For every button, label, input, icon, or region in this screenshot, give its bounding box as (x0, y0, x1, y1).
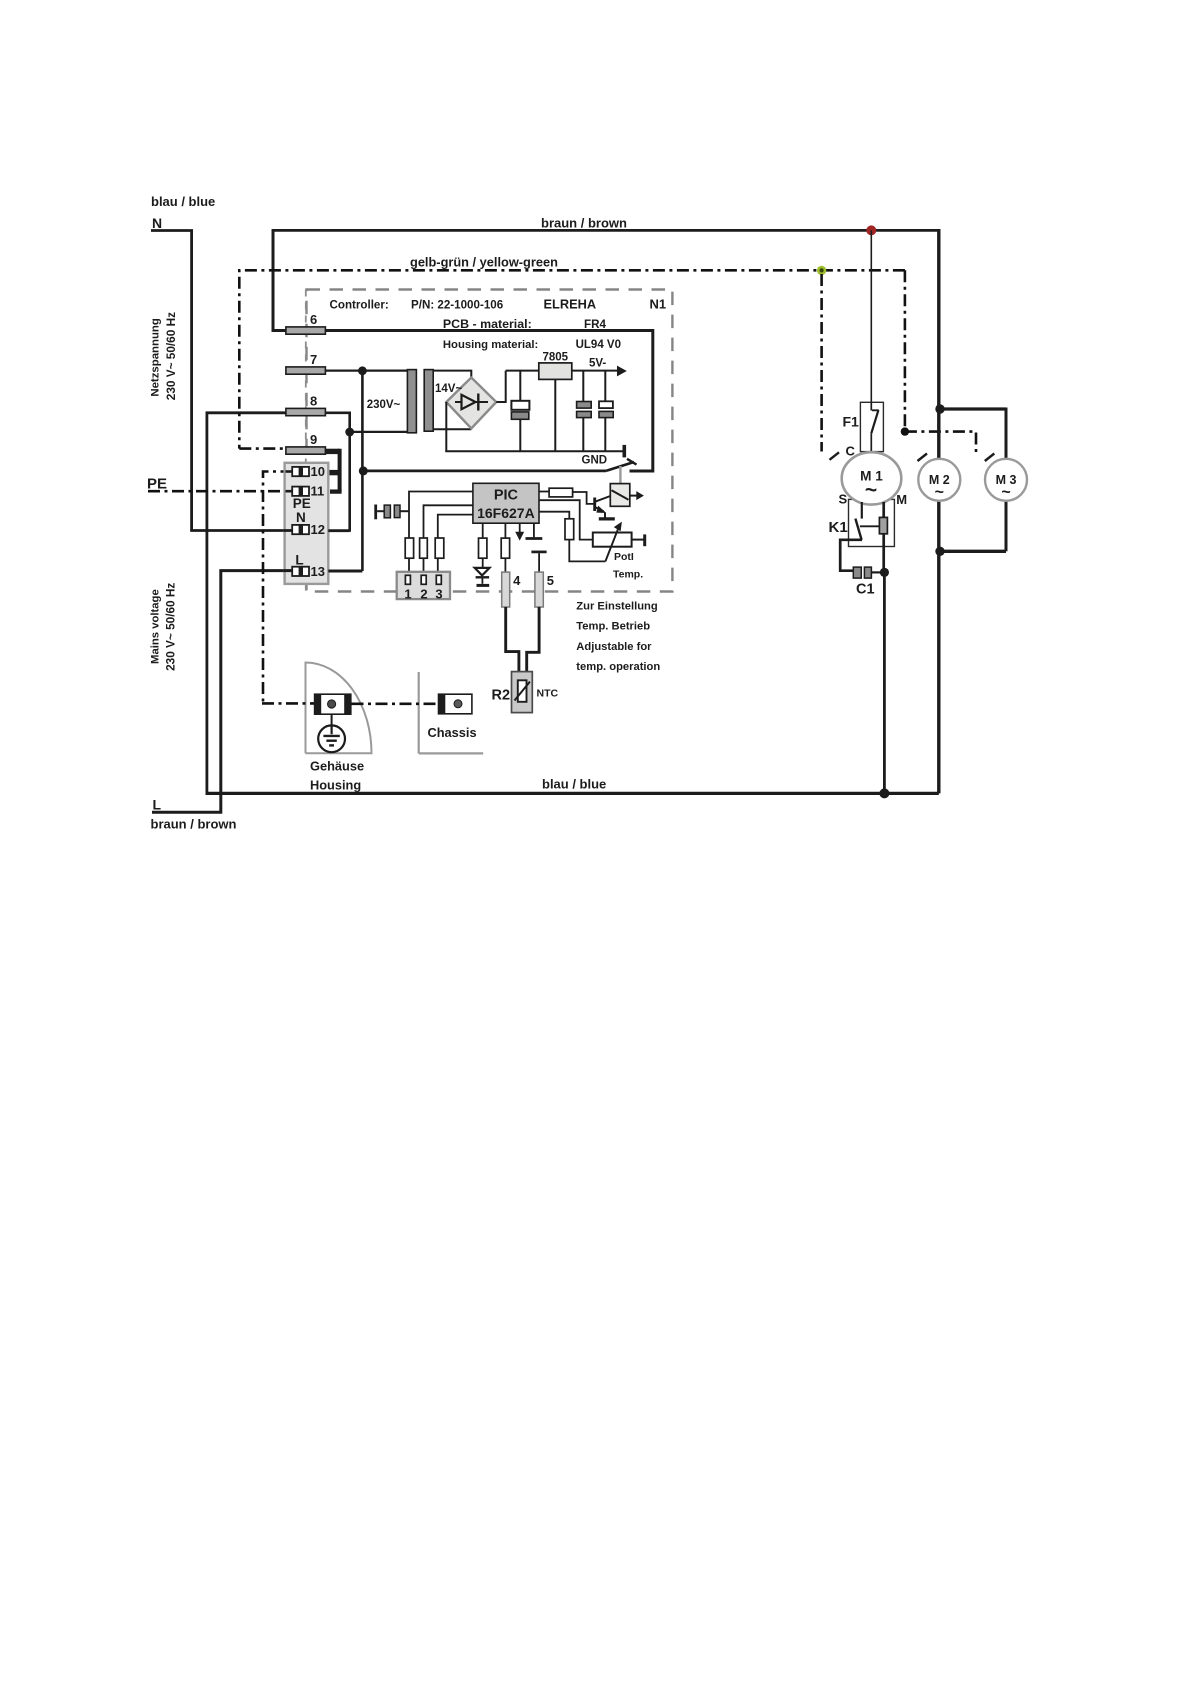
housing connector right bar (344, 694, 351, 714)
wire C1 to junction (871, 571, 880, 573)
svg-text:gelb-grün / yellow-green: gelb-grün / yellow-green (410, 255, 558, 270)
wire M1 M terminal down to C1 junction (882, 502, 885, 572)
chassis symbol lines (419, 672, 484, 753)
wire chassis dash-dot from terminal 10 down to housing (263, 472, 293, 703)
wire C5 to terminal 5 (538, 553, 540, 572)
junction dot C1 (880, 568, 889, 577)
capacitor C2 plate + (511, 401, 529, 410)
wire PE dash-dot drop to M1 (820, 274, 823, 452)
svg-text:~: ~ (935, 484, 944, 501)
wire transformer primary bottom (350, 431, 417, 433)
svg-text:braun / brown: braun / brown (151, 817, 237, 832)
centrifugal switch K1 box (849, 499, 895, 546)
motor M2 (918, 459, 960, 501)
svg-text:2: 2 (420, 586, 427, 601)
svg-text:4: 4 (513, 573, 521, 588)
F1 blade (871, 410, 878, 433)
transformer T1 primary winding bar (407, 370, 416, 433)
capacitor C4 riser (604, 371, 606, 402)
wire bridge DC- down to GND rail (445, 402, 447, 451)
wire terminal 5 to R2 (527, 607, 539, 672)
wire braun/brown top rail (272, 229, 939, 232)
svg-text:N: N (152, 215, 162, 231)
svg-text:Adjustable for: Adjustable for (576, 641, 652, 653)
junction dot link top (935, 404, 944, 413)
junction dot red (braun) (866, 225, 876, 235)
connector J1 body (397, 572, 450, 599)
poti terminal bar (643, 534, 646, 546)
housing connector left bar (315, 694, 322, 714)
svg-text:L: L (295, 552, 303, 567)
svg-text:N: N (296, 510, 306, 525)
wire PIC pin to terminal 4 (504, 523, 506, 538)
svg-text:PE: PE (293, 496, 311, 511)
wire PIC pin chain 2 (424, 505, 473, 538)
wire M1 S terminal (861, 502, 863, 519)
svg-text:~: ~ (1001, 484, 1010, 501)
R2 thermistor diagonal (515, 682, 530, 701)
svg-text:N1: N1 (650, 296, 667, 311)
resistor R3 (405, 538, 413, 558)
poti wiper arrow (605, 527, 619, 562)
svg-text:3: 3 (435, 586, 442, 601)
connector J1 slot 3 (436, 575, 441, 584)
wire motor link top (939, 407, 1006, 410)
connector J1 slot 2 (421, 575, 426, 584)
resistor R7 (wiper) (565, 519, 574, 540)
wire R7 to wiper (569, 540, 605, 562)
housing connector contact (328, 700, 336, 708)
svg-text:5V-: 5V- (589, 358, 606, 370)
wire terminal 6 to relay contact stub (325, 331, 652, 472)
svg-text:Temp. Betrieb: Temp. Betrieb (576, 621, 650, 633)
wire 5V rail (506, 370, 618, 372)
wire gelb-gruen dash-dot main run (239, 270, 905, 448)
wires resistors to connector slots (409, 558, 438, 575)
wire PE dash-dot drop right (904, 270, 907, 431)
svg-text:Controller:: Controller: (330, 298, 389, 311)
svg-text:11: 11 (311, 484, 325, 499)
svg-text:blau / blue: blau / blue (542, 777, 606, 792)
capacitor C3 plates (577, 402, 592, 409)
svg-text:14V~: 14V~ (435, 383, 462, 395)
capacitor C2 plate - (511, 412, 528, 419)
wire bridge DC+ up to 5V rail (496, 371, 505, 402)
resistor R5 (435, 538, 444, 558)
diode D2 (475, 568, 490, 576)
terminal 5 pad (535, 572, 543, 607)
resonator block 2 (394, 505, 400, 517)
wire motor link bottom (939, 550, 1006, 553)
svg-text:Gehäuse: Gehäuse (310, 758, 364, 773)
resonator lead left (377, 510, 384, 512)
transformer T1 secondary winding bar (424, 370, 433, 432)
wire gelb-gruen dash-dot into terminal 9 (239, 447, 285, 450)
svg-text:5: 5 (547, 573, 554, 588)
wire GND rail (445, 450, 622, 452)
wire N horizontal into terminal 12 (190, 529, 292, 532)
capacitor C1 plate 1 (853, 567, 861, 578)
microcontroller U1 PIC body (473, 483, 539, 523)
strap terminals 9-10-11 (325, 449, 339, 454)
svg-text:K1: K1 (829, 519, 848, 536)
transistor Q1 collector (595, 496, 611, 502)
svg-text:Zur Einstellung: Zur Einstellung (576, 600, 658, 612)
wire PIC pin to base resistor (539, 491, 549, 493)
wire PIC pin to zener chain (482, 523, 484, 538)
svg-text:230V~: 230V~ (367, 399, 401, 411)
wire terminal 8 to primary-bottom junction (325, 413, 349, 532)
svg-text:Chassis: Chassis (428, 725, 477, 740)
svg-text:PotI: PotI (614, 551, 634, 563)
wire connector to earth symbol (331, 714, 333, 725)
resonator block 1 (384, 505, 390, 518)
svg-text:PIC: PIC (494, 488, 519, 504)
svg-text:temp. operation: temp. operation (576, 661, 660, 673)
svg-text:ELREHA: ELREHA (544, 296, 597, 311)
chassis connector left bar (439, 694, 446, 714)
terminal block X1 body (285, 463, 329, 584)
chassis connector body (439, 694, 472, 714)
relay contact blade (606, 462, 634, 471)
svg-text:P/N: 22-1000-106: P/N: 22-1000-106 (411, 298, 504, 311)
svg-text:R2: R2 (492, 688, 511, 704)
resonator lead right (400, 510, 409, 512)
junction dot green (gelb-gruen) (817, 266, 826, 275)
chassis connector contact (454, 700, 462, 708)
PTC resistor (879, 517, 887, 533)
wire 7805 ground pin (554, 379, 556, 451)
terminal 11 clamp (292, 487, 309, 496)
svg-text:M: M (896, 492, 907, 507)
svg-text:Netzspannung: Netzspannung (150, 318, 162, 397)
svg-text:9: 9 (310, 432, 317, 447)
wire terminal 4 to R2 (506, 607, 519, 672)
svg-text:L: L (153, 797, 162, 813)
junction dot bottom rail (879, 788, 889, 798)
svg-text:7: 7 (310, 352, 317, 367)
terminal 7 (286, 367, 326, 374)
wire D2 to end bar (481, 578, 483, 583)
wire secondary bottom to bridge AC2 (433, 428, 471, 430)
relay coil diagonal (612, 490, 629, 500)
svg-text:Housing material:: Housing material: (443, 339, 538, 351)
wire R10 to terminal 4 (504, 558, 506, 572)
wire bottom rail blau/blue (206, 792, 939, 795)
wire PIC pin to gnd bar (533, 523, 535, 537)
wire N: top entry down to terminal 12 (151, 231, 192, 531)
housing outline (Gehaeuse) (306, 663, 372, 754)
GND terminal bar (622, 445, 626, 458)
controller N1 dashed boundary box (307, 290, 673, 592)
chassis tick M2 (918, 454, 928, 462)
wire terminal 12 to primary-bottom junction (328, 529, 349, 532)
ground stub bar (PIC) (526, 537, 543, 540)
wire L feed vertical (dot1 to dot3 to terminal 13) (361, 371, 364, 571)
bridge D1 internal diode (455, 401, 488, 403)
terminal 6 (286, 327, 326, 334)
wire M branch down to rail (883, 572, 886, 793)
svg-text:12: 12 (311, 522, 325, 537)
resistor R9 (479, 538, 487, 558)
svg-text:UL94 V0: UL94 V0 (576, 339, 621, 351)
chassis tick M1 (830, 452, 840, 460)
arrow 5V output (617, 366, 627, 377)
motor M1 (842, 452, 902, 504)
junction dot2 (terminal 8 / primary bottom / N) (345, 428, 354, 437)
wire terminal 13 to L feed vertical (328, 570, 362, 573)
terminal 8 (286, 408, 326, 415)
svg-text:Temp.: Temp. (613, 569, 643, 581)
svg-text:GND: GND (582, 454, 608, 466)
svg-text:16F627A: 16F627A (477, 505, 535, 521)
wire C4 to GND rail (604, 418, 606, 452)
transistor Q1 emitter with arrow (595, 507, 604, 511)
F1 internal lead top (870, 402, 872, 410)
arrow PIC pin down (519, 523, 521, 532)
wire PE dash-dot branch to motors (905, 432, 976, 452)
regulator U2 7805 body (539, 363, 572, 380)
wire PIC pin to poti top (539, 500, 593, 539)
svg-text:7805: 7805 (543, 352, 569, 364)
wire secondary top to bridge AC1 (433, 371, 471, 379)
capacitor C4 plates (599, 401, 613, 408)
wire PIC pin to R/osc chain 1 (409, 492, 473, 539)
wire terminal 8 to bottom blue rail (207, 413, 286, 792)
junction dot link bottom (935, 547, 944, 556)
svg-text:10: 10 (311, 464, 325, 479)
wire C3 to GND rail (582, 418, 584, 452)
resonator X2 left bar (374, 505, 377, 520)
wire emitter to ground (604, 513, 606, 518)
svg-text:~: ~ (865, 479, 877, 502)
connector J1 slot 1 (405, 575, 410, 584)
svg-text:230 V~ 50/60 Hz: 230 V~ 50/60 Hz (164, 583, 178, 671)
terminal 12 clamp (292, 525, 309, 534)
resistor R6 (base) (549, 488, 573, 497)
junction dot PE branch (901, 427, 909, 435)
wire braun/brown drop to terminal 6 (273, 230, 286, 331)
fuse F1 box (860, 402, 883, 451)
relay K coil box (610, 484, 630, 507)
capacitor C3 riser (582, 371, 584, 402)
wire C2 to GND rail (519, 419, 521, 451)
wire PIC pin to wiper chain (539, 512, 569, 519)
wire PIC pin chain 3 (438, 515, 473, 538)
resistor R10 (501, 538, 509, 558)
svg-text:C1: C1 (856, 581, 875, 597)
relay contact tip tick (627, 459, 637, 465)
svg-text:blau / blue: blau / blue (151, 194, 215, 209)
capacitor C5 plate (531, 551, 546, 554)
svg-text:S: S (839, 491, 848, 506)
capacitor C2 (smoothing) riser (519, 371, 521, 401)
svg-text:1: 1 (404, 586, 411, 601)
sensor R2 body (512, 672, 533, 713)
wire switch feed (dot3 to relay contact) (363, 469, 606, 472)
bridge rectifier D1 diamond (446, 378, 496, 429)
svg-text:braun / brown: braun / brown (541, 216, 627, 231)
ground bar (emitter) (599, 517, 615, 520)
ground stub bar (D2) (477, 584, 490, 587)
relay actuate arrow (630, 495, 637, 497)
junction dot3 (switch feed) (359, 466, 368, 475)
K1 blade (855, 519, 861, 540)
svg-text:230 V~ 50/60 Hz: 230 V~ 50/60 Hz (164, 312, 178, 400)
wire L: terminal 13 left down to bottom entry (152, 571, 293, 813)
svg-text:Housing: Housing (310, 778, 361, 793)
resistor R4 (420, 538, 428, 558)
terminal 4 pad (502, 572, 510, 607)
wire R9 to diode (482, 558, 484, 568)
relay actuator link (619, 466, 621, 484)
wire poti right (632, 539, 644, 541)
svg-text:6: 6 (310, 312, 317, 327)
svg-text:13: 13 (311, 564, 325, 579)
junction dot1 (terminal 7 / primary top) (358, 366, 367, 375)
terminal 13 clamp (292, 567, 309, 576)
svg-text:NTC: NTC (537, 688, 559, 700)
motor M3 (985, 459, 1027, 501)
R2 thermistor box (518, 680, 527, 702)
wire terminal 7 to transformer primary top (325, 370, 416, 372)
wire right braun rail down (937, 229, 940, 793)
K1 bottom wire to C1 (840, 540, 862, 571)
transistor Q1 base bar (593, 498, 596, 512)
terminal 10 clamp (292, 467, 309, 476)
svg-text:F1: F1 (843, 414, 860, 430)
K1 tap to PTC (860, 525, 880, 527)
wire R6 to transistor base (573, 492, 594, 504)
controller boundary dashed segment through terminals (305, 290, 307, 592)
wire PE dash-dot into terminal 11 (148, 490, 293, 493)
wire chassis dash-dot link (housing side) (262, 702, 314, 705)
wire red dot to F1 (870, 230, 872, 402)
svg-text:Mains voltage: Mains voltage (150, 589, 162, 664)
wire stubs through block edge (284, 529, 293, 532)
terminal 9 (286, 447, 326, 454)
chassis tick M3 (985, 454, 995, 462)
wire M3 riser (1005, 408, 1008, 466)
protective earth symbol (318, 725, 345, 752)
wire chassis dash-dot link (352, 702, 439, 705)
wire M3 to bottom link (1005, 495, 1008, 551)
capacitor C1 plate 2 (864, 567, 871, 578)
svg-text:8: 8 (310, 394, 317, 409)
svg-text:PCB - material:: PCB - material: (443, 317, 532, 331)
housing connector body (315, 694, 351, 714)
F1 internal lead bottom (870, 433, 872, 452)
potentiometer R8 body (593, 533, 632, 547)
